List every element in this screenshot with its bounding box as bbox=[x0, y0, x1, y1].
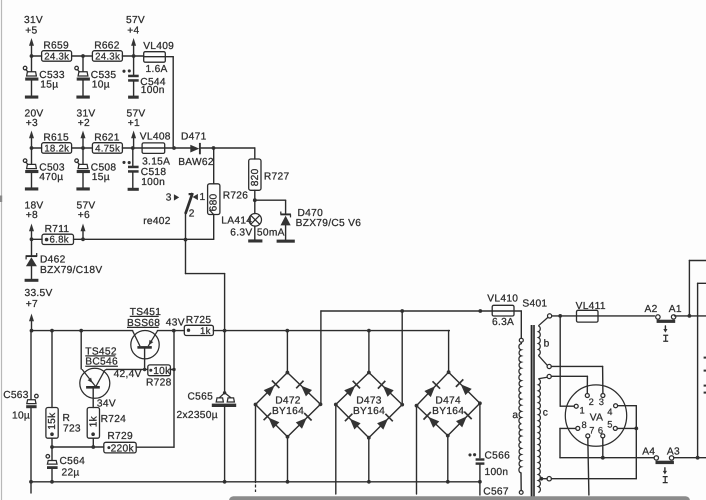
svg-text:R659: R659 bbox=[43, 41, 69, 52]
svg-text:D474: D474 bbox=[435, 395, 461, 406]
svg-text:100n: 100n bbox=[141, 177, 165, 188]
svg-text:D462: D462 bbox=[40, 254, 66, 265]
svg-text:A4: A4 bbox=[642, 447, 655, 458]
svg-text:+8: +8 bbox=[26, 210, 38, 221]
svg-text:24.3k: 24.3k bbox=[95, 51, 120, 62]
svg-text:R728: R728 bbox=[146, 378, 172, 389]
svg-text:VA: VA bbox=[590, 413, 603, 424]
svg-text:22µ: 22µ bbox=[62, 467, 80, 478]
svg-text:R662: R662 bbox=[94, 41, 120, 52]
svg-text:BY164: BY164 bbox=[353, 406, 385, 417]
svg-text:4.75k: 4.75k bbox=[95, 143, 120, 154]
svg-text:LA414: LA414 bbox=[221, 215, 252, 226]
svg-text:100n: 100n bbox=[141, 85, 165, 96]
svg-text:S401: S401 bbox=[522, 299, 547, 310]
svg-text:R724: R724 bbox=[101, 414, 127, 425]
svg-text:D472: D472 bbox=[275, 395, 301, 406]
svg-text:10µ: 10µ bbox=[92, 80, 110, 91]
svg-text:100n: 100n bbox=[485, 467, 509, 478]
svg-text:C564: C564 bbox=[60, 456, 86, 467]
svg-text:33.5V: 33.5V bbox=[25, 288, 53, 299]
svg-text:10k: 10k bbox=[153, 366, 171, 377]
svg-text:34V: 34V bbox=[97, 398, 116, 409]
svg-text:A1: A1 bbox=[669, 304, 682, 315]
svg-text:re402: re402 bbox=[143, 216, 171, 227]
svg-text:43V: 43V bbox=[166, 318, 185, 329]
svg-text:18.2k: 18.2k bbox=[44, 143, 69, 154]
svg-text:10µ: 10µ bbox=[12, 411, 30, 422]
svg-text:A3: A3 bbox=[667, 447, 680, 458]
svg-text:R727: R727 bbox=[264, 171, 290, 182]
svg-text:723: 723 bbox=[63, 424, 81, 435]
svg-text:3.15A: 3.15A bbox=[142, 156, 170, 167]
svg-text:6.3V: 6.3V bbox=[230, 227, 252, 238]
svg-text:220k: 220k bbox=[111, 443, 135, 454]
svg-text:1k: 1k bbox=[200, 326, 211, 337]
svg-text:+6: +6 bbox=[78, 210, 90, 221]
svg-text:VL408: VL408 bbox=[140, 132, 171, 143]
svg-text:1.6A: 1.6A bbox=[146, 64, 168, 75]
svg-text:+7: +7 bbox=[26, 299, 38, 310]
svg-text:8: 8 bbox=[582, 419, 587, 430]
svg-text:680: 680 bbox=[209, 193, 220, 211]
svg-text:24.3k: 24.3k bbox=[44, 51, 69, 62]
svg-text:42,4V: 42,4V bbox=[114, 369, 142, 380]
svg-text:VL410: VL410 bbox=[487, 294, 518, 305]
svg-text:R729: R729 bbox=[107, 431, 133, 442]
svg-text:4: 4 bbox=[607, 406, 612, 417]
svg-text:R726: R726 bbox=[223, 191, 249, 202]
svg-text:A2: A2 bbox=[645, 304, 658, 315]
svg-text:3: 3 bbox=[599, 396, 604, 407]
svg-text:820: 820 bbox=[250, 168, 261, 186]
svg-text:BY164: BY164 bbox=[272, 406, 304, 417]
svg-text:D473: D473 bbox=[356, 395, 382, 406]
svg-text:VL409: VL409 bbox=[143, 41, 174, 52]
svg-text:C566: C566 bbox=[485, 450, 511, 461]
svg-text:BZX79/C18V: BZX79/C18V bbox=[40, 265, 102, 276]
svg-text:c: c bbox=[543, 407, 548, 418]
svg-text:2x2350µ: 2x2350µ bbox=[177, 410, 218, 421]
svg-text:1k: 1k bbox=[88, 415, 99, 427]
svg-text:R615: R615 bbox=[43, 133, 69, 144]
svg-text:BAW62: BAW62 bbox=[178, 157, 214, 168]
svg-text:D471: D471 bbox=[181, 132, 207, 143]
svg-text:2: 2 bbox=[189, 208, 195, 219]
svg-text:BZX79/C5 V6: BZX79/C5 V6 bbox=[296, 218, 362, 229]
svg-text:b: b bbox=[544, 338, 550, 349]
svg-text:+5: +5 bbox=[25, 25, 37, 36]
svg-text:6: 6 bbox=[598, 424, 603, 435]
svg-text:BY164: BY164 bbox=[432, 406, 464, 417]
svg-text:+2: +2 bbox=[78, 118, 90, 129]
svg-text:1: 1 bbox=[580, 405, 585, 416]
svg-text:15k: 15k bbox=[47, 412, 58, 430]
svg-text:3: 3 bbox=[166, 193, 172, 204]
svg-text:C565: C565 bbox=[188, 391, 214, 402]
svg-text:1: 1 bbox=[200, 192, 206, 203]
svg-text:a: a bbox=[512, 410, 518, 421]
svg-text:5: 5 bbox=[607, 418, 612, 429]
svg-text:C567: C567 bbox=[483, 487, 509, 498]
svg-text:6.8k: 6.8k bbox=[50, 235, 69, 246]
svg-text:R725: R725 bbox=[186, 315, 212, 326]
svg-text:R: R bbox=[63, 413, 71, 424]
svg-text:R621: R621 bbox=[94, 133, 120, 144]
svg-text:6.3A: 6.3A bbox=[492, 317, 514, 328]
svg-text:+3: +3 bbox=[26, 118, 38, 129]
svg-text:50mA: 50mA bbox=[257, 227, 285, 238]
svg-text:+4: +4 bbox=[127, 25, 139, 36]
svg-text:+1: +1 bbox=[128, 118, 140, 129]
svg-text:C563: C563 bbox=[3, 390, 29, 401]
svg-text:R711: R711 bbox=[45, 224, 70, 235]
svg-text:7: 7 bbox=[589, 424, 594, 435]
svg-text:470µ: 470µ bbox=[39, 172, 63, 183]
svg-text:15µ: 15µ bbox=[92, 172, 110, 183]
svg-text:15µ: 15µ bbox=[40, 80, 58, 91]
svg-text:2: 2 bbox=[589, 396, 594, 407]
